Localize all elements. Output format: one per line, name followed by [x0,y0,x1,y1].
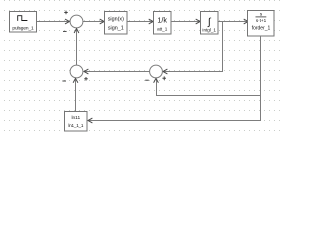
block pulsgen_1 [10,12,37,33]
wire: sign_1 to att_1 [127,21,152,23]
arrowhead into sign_1 [100,19,104,24]
block forder_1 [248,11,275,37]
block att_1 [154,12,172,35]
svg-text:att_1: att_1 [157,27,168,32]
svg-text:ln11: ln11 [71,115,80,121]
arrowhead into intgl_1 [196,19,200,24]
wire: sum3 output up to sum1 bottom [76,30,78,66]
block ln1_1_1 [65,112,88,132]
block sign_1 [105,12,128,35]
arrowhead into sum3 right [84,69,88,74]
svg-text:sign_1: sign_1 [108,25,124,31]
wire: branch from intgl output down to sum2 [164,22,223,72]
block intgl_1 [201,12,219,35]
wire: pulsgen_1 output to sum junction [37,21,69,23]
summing junction sum3 [70,65,83,78]
wire: sum2 output to sum3 [85,71,150,73]
wire: att_1 to intgl_1 [171,21,199,23]
wire: ln block output up to sum3 bottom [75,79,77,111]
minus sign at sum2 bottom input [145,79,149,81]
svg-text:ln1_1_1: ln1_1_1 [68,123,84,128]
svg-text:pulsgen_1: pulsgen_1 [12,25,34,31]
wire: forder_1 output continues down and left to ln block [89,96,261,121]
svg-text:intgl_1: intgl_1 [202,28,216,33]
plus sign at sum3 right input [84,77,88,81]
arrowhead into sum3 bottom [73,78,78,82]
arrowhead into sum1 [65,19,69,24]
wire: intgl_1 to forder_1 [218,21,247,23]
plus sign at sum1 left input [64,11,68,15]
minus sign at sum3 bottom input [62,80,66,82]
arrowhead into att_1 [149,19,153,24]
arrowhead into sum1 bottom [74,29,79,33]
summing junction sum1 [70,15,83,28]
arrowhead into ln block right [88,118,92,123]
svg-text:1/k: 1/k [157,16,167,25]
svg-text:s·t+1: s·t+1 [256,18,267,23]
plus sign at sum2 right input [162,76,166,80]
arrowhead into forder_1 [244,19,248,24]
summing junction sum2 [150,65,163,78]
arrowhead into sum2 bottom [154,78,159,82]
svg-text:forder_1: forder_1 [252,25,271,31]
wire: forder_1 output down, branch to sum2 bottom [157,36,261,96]
arrowhead into sum2 right [163,69,167,74]
wire: sum1 to sign_1 [83,21,103,23]
svg-text:sign(x): sign(x) [108,16,124,22]
minus sign at sum1 bottom input [63,30,67,32]
